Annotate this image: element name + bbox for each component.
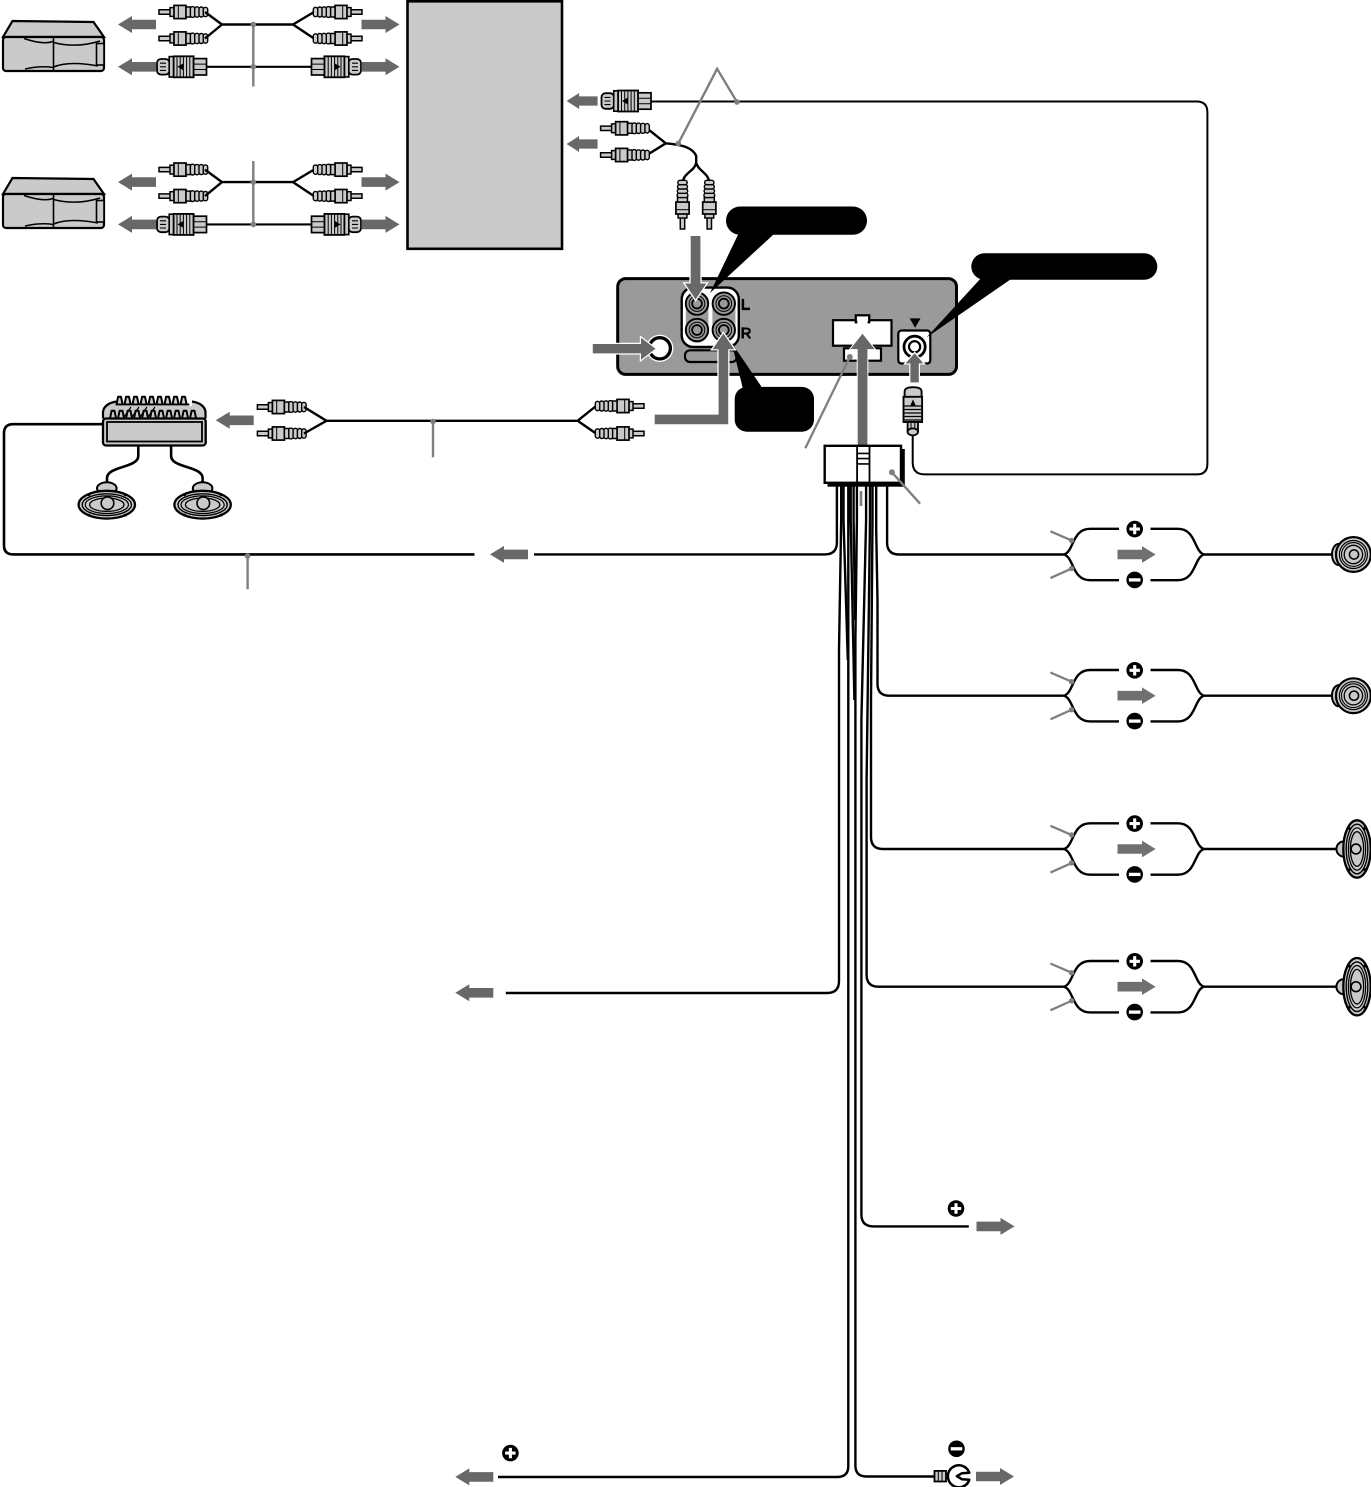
cable tie mark changer 2: [252, 161, 254, 225]
wire: amp speaker leads: [107, 446, 203, 483]
plus mark rear-left: [1124, 813, 1145, 834]
arrow to unit (audio) changer 1: [362, 16, 400, 33]
CD/MD changer unit 2: [3, 178, 104, 228]
wire: battery + lead: [861, 486, 968, 1226]
main connector socket: [833, 320, 892, 346]
antenna jack marker: [910, 318, 921, 327]
arrow into BUS connector: [593, 338, 656, 360]
BUS plug to note box: [602, 91, 652, 112]
wire: loom filler 1: [844, 486, 848, 660]
arrow into note box (audio): [567, 136, 598, 152]
RCA plugs down to unit: [676, 180, 689, 229]
wire: amp RCA cord: [304, 406, 596, 434]
RCA plugs to amp: [257, 400, 306, 413]
cable tie mark changer 1: [252, 25, 254, 87]
label L: [742, 299, 750, 310]
wire: rear-right speaker lead: [867, 486, 1064, 987]
RCA plugs into note box: [601, 122, 650, 135]
wire: BUS cable changer 1: [206, 66, 312, 68]
arrow into L jack (from cords): [685, 236, 706, 300]
wire: front-left speaker cord split: [1064, 529, 1204, 555]
slot on panel: [685, 350, 737, 362]
arrow on remote lead: [490, 546, 528, 563]
callout bubble 3 (AUDIO IN R): [735, 387, 814, 432]
power amplifier: [103, 402, 206, 421]
wire: rear-right speaker lead: [1204, 986, 1338, 988]
wire: amp remote lead around left edge: [4, 424, 475, 554]
arrow into R jack (from amp cord): [655, 334, 735, 425]
RCA jack R1: [686, 319, 708, 341]
BUS cable right plug changer 1: [312, 56, 362, 77]
minus mark (ground): [946, 1438, 967, 1459]
amp speaker left: [79, 482, 135, 518]
arrow to changer 1 (BUS): [118, 58, 156, 75]
CD/MD changer 1: RCA audio cord left plugs: [159, 5, 208, 18]
front-right speaker: [1332, 678, 1371, 713]
arrow into main socket: [850, 334, 874, 448]
wire: front-left speaker lead: [887, 486, 1064, 555]
harness connector: [901, 449, 905, 487]
connector latch plate: [844, 348, 881, 360]
bare wire ends rear-right: [1050, 964, 1071, 973]
leader zigzag (cords label): [678, 69, 737, 144]
plus mark (battery lead): [946, 1198, 967, 1219]
bare wire ends front-right: [1050, 673, 1071, 682]
wire: remote lead peel (left, y554): [534, 486, 837, 554]
minus mark rear-right: [1124, 1002, 1145, 1023]
wire: front-right speaker lead: [876, 486, 1064, 696]
AUDIO IN jack block: [682, 288, 739, 347]
BUS cable left plug changer 1: [157, 56, 207, 77]
arrow on left lead (y993): [455, 984, 493, 1001]
arrow to changer 2 (BUS): [118, 216, 156, 233]
plus mark rear-right: [1124, 951, 1145, 972]
rear-left speaker: [1336, 820, 1370, 877]
wire: audio cord to note box: [647, 128, 696, 163]
arrow to unit (audio) changer 2: [362, 174, 400, 191]
plus mark (accessory lead): [500, 1443, 521, 1464]
antenna jack: [898, 331, 930, 364]
CD/MD changer 2: RCA audio cord left plugs: [159, 163, 208, 176]
cable tie mark on remote lead: [246, 556, 248, 589]
arrow to unit (BUS) changer 1: [362, 58, 400, 75]
RCA jack L2: [713, 292, 735, 314]
RCA audio cord right plugs changer 2: [313, 163, 362, 176]
wire: front-right speaker lead: [1204, 695, 1334, 697]
flow arrow front-left: [1118, 546, 1156, 563]
arrow ground: [976, 1468, 1014, 1485]
flow arrow rear-right: [1118, 978, 1156, 995]
leader line (harness): [889, 469, 895, 475]
wire: RCA cord Y-junctions changer 1: [205, 12, 314, 39]
cable tie mark on amp cord: [432, 422, 434, 458]
BUS cable left plug changer 2: [157, 214, 207, 235]
wire: bottom-left power lead: [498, 486, 848, 1477]
head unit rear panel: [618, 279, 957, 375]
BUS control connector (round): [646, 335, 673, 362]
CD/MD changer unit 1: [3, 21, 104, 71]
arrow to changer 1 (audio): [118, 16, 156, 33]
bare wire ends front-left: [1050, 531, 1071, 540]
amp speaker right: [174, 482, 230, 518]
wire: rear-left speaker lead: [1204, 848, 1338, 850]
minus mark rear-left: [1124, 864, 1145, 885]
callout bubble 1 (AUDIO IN): [726, 207, 867, 235]
wire: loom filler 3: [854, 486, 856, 620]
RCA audio cord right plugs changer 1: [313, 5, 362, 18]
minus mark front-right: [1124, 711, 1145, 732]
label R: [741, 327, 744, 338]
arrow shaft stub below harness: [860, 491, 863, 506]
wire: left lead (y993): [506, 486, 841, 993]
arrow to changer 2 (audio): [118, 174, 156, 191]
RCA jack L1: [686, 292, 708, 314]
arrow into note box (BUS): [567, 93, 598, 109]
BUS cable right plug changer 2: [312, 214, 362, 235]
note box (source selector): [408, 1, 563, 249]
plus mark front-left: [1124, 519, 1145, 540]
wire: BUS cable changer 2: [206, 223, 312, 225]
arrow to unit (BUS) changer 2: [362, 216, 400, 233]
wire: BUS/antenna cable loop: [650, 102, 1208, 475]
RCA jack R2: [713, 319, 735, 341]
wire: rear-left speaker lead: [871, 486, 1064, 849]
wire: RCA cord Y-junctions changer 2: [205, 170, 314, 197]
wire: front-right speaker cord split: [1064, 670, 1204, 696]
bare wire ends rear-left: [1050, 826, 1071, 835]
plus mark front-right: [1124, 660, 1145, 681]
leader line (latch): [847, 354, 853, 360]
arrow accessory +: [455, 1468, 493, 1485]
arrow into antenna jack: [906, 353, 924, 382]
arrow into amp: [216, 412, 254, 429]
flow arrow front-right: [1118, 687, 1156, 704]
wire: rear-right speaker cord split: [1064, 961, 1204, 987]
callout bubble 2 (antenna): [971, 253, 1157, 279]
antenna plug: [905, 387, 922, 397]
wire: ground lead: [855, 486, 935, 1477]
rear-right speaker: [1336, 958, 1370, 1015]
arrow battery +: [977, 1218, 1015, 1235]
ground ring terminal: [935, 1471, 947, 1482]
wire: front-left speaker lead: [1204, 553, 1334, 555]
RCA plugs from unit: [595, 399, 644, 412]
wire: loom filler 2: [851, 486, 855, 700]
wire: rear-left speaker cord split: [1064, 823, 1204, 849]
minus mark front-left: [1124, 570, 1145, 591]
flow arrow rear-left: [1118, 841, 1156, 858]
front-left speaker: [1332, 537, 1371, 572]
